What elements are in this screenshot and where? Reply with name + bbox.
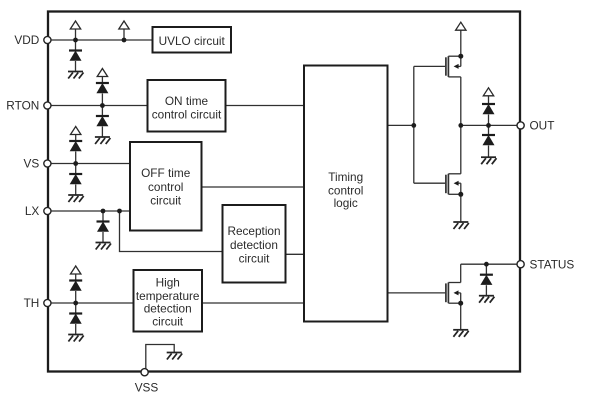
svg-text:VDD: VDD — [14, 33, 39, 47]
svg-text:UVLO circuit: UVLO circuit — [159, 34, 226, 48]
svg-text:OFF time: OFF time — [141, 166, 191, 180]
svg-text:detection: detection — [230, 238, 278, 252]
svg-text:STATUS: STATUS — [530, 257, 575, 271]
svg-text:logic: logic — [334, 196, 358, 210]
svg-text:High: High — [156, 276, 180, 290]
svg-text:detection: detection — [144, 301, 192, 315]
svg-text:circuit: circuit — [150, 194, 182, 208]
svg-text:Timing: Timing — [328, 170, 363, 184]
svg-text:LX: LX — [25, 204, 40, 218]
svg-text:ON time: ON time — [165, 94, 209, 108]
svg-text:circuit: circuit — [239, 251, 271, 265]
svg-text:VS: VS — [24, 157, 40, 171]
svg-text:RTON: RTON — [6, 99, 39, 113]
svg-text:Reception: Reception — [227, 224, 280, 238]
svg-text:control: control — [148, 180, 183, 194]
svg-text:circuit: circuit — [152, 315, 184, 329]
svg-text:TH: TH — [24, 296, 40, 310]
svg-text:OUT: OUT — [530, 119, 555, 133]
svg-text:control circuit: control circuit — [152, 107, 222, 121]
svg-text:VSS: VSS — [135, 381, 159, 395]
